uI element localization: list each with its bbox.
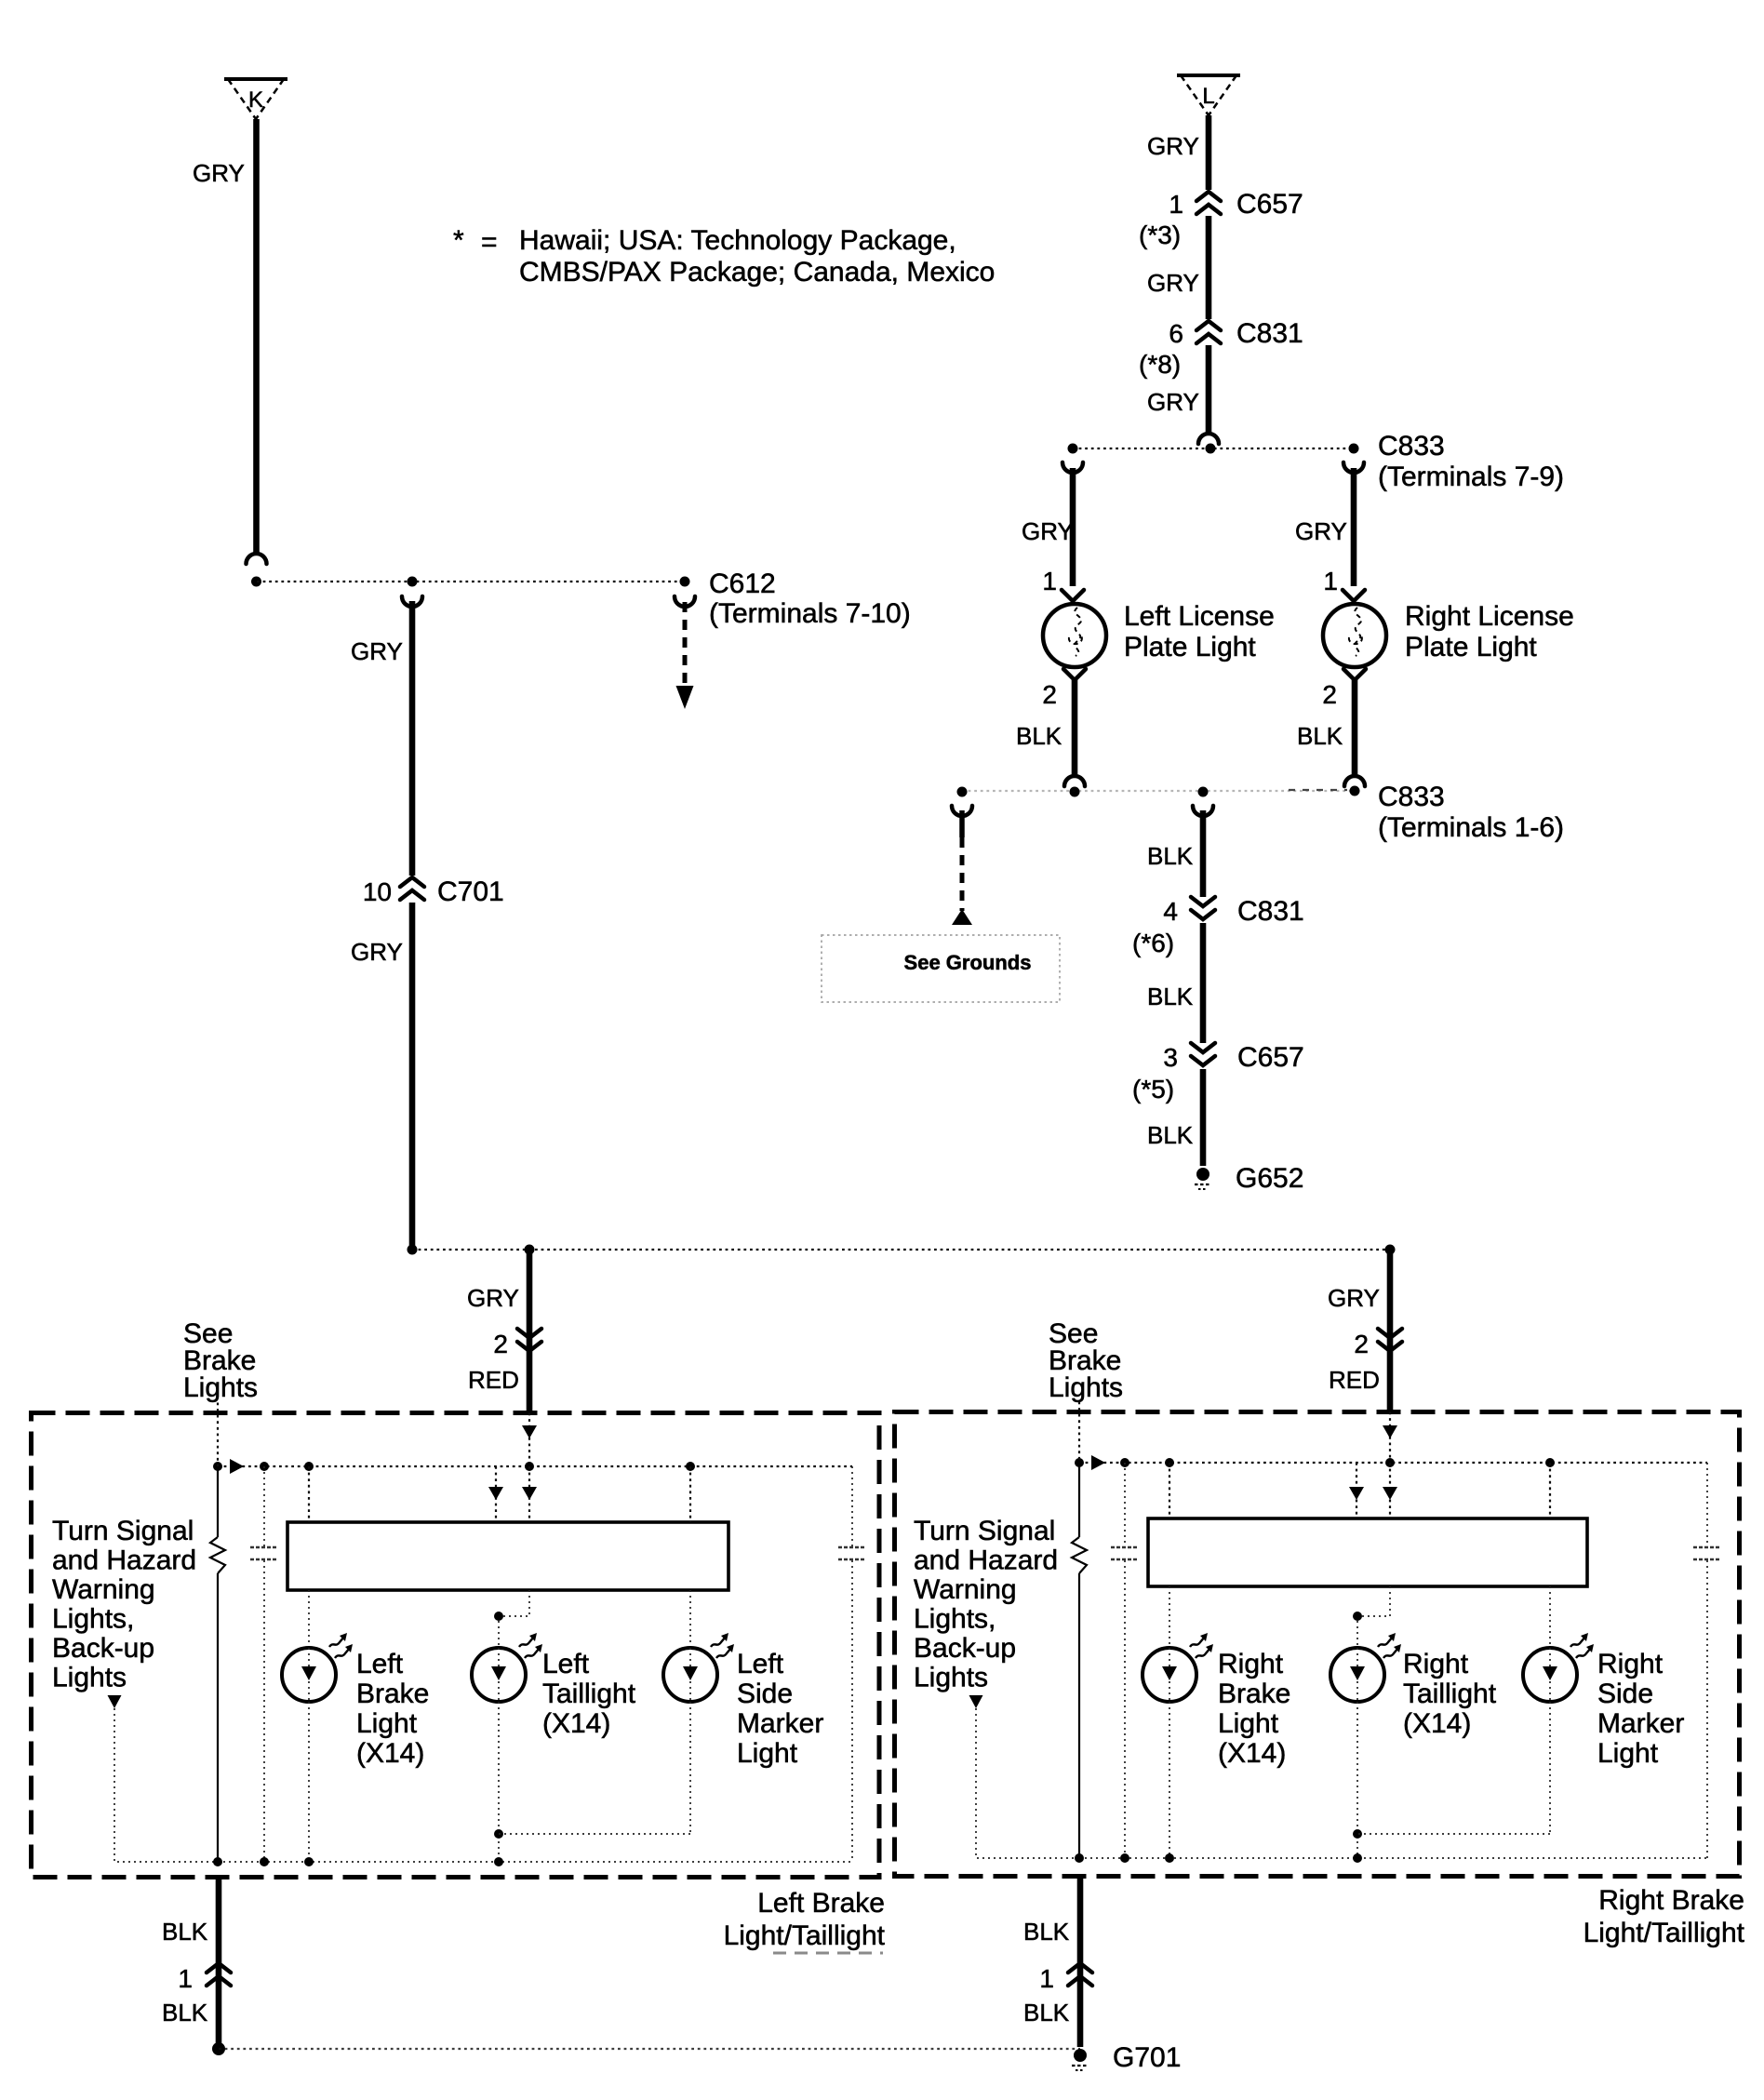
wire GRY to left license plate light pin 1 xyxy=(1062,462,1083,473)
lamp left brake light (X14) xyxy=(282,1648,336,1702)
svg-text:BLK: BLK xyxy=(1147,1121,1194,1149)
svg-text:1: 1 xyxy=(1039,1964,1054,1993)
wire brake lamp branch xyxy=(308,1466,310,1522)
svg-text:Marker: Marker xyxy=(737,1708,823,1739)
svg-text:Warning: Warning xyxy=(914,1574,1017,1605)
connector C831 pin 4 (*6) xyxy=(1191,897,1215,906)
svg-text:GRY: GRY xyxy=(351,938,403,966)
svg-text:BLK: BLK xyxy=(162,1999,208,2026)
wire side marker branch xyxy=(689,1466,691,1522)
node junction under K xyxy=(251,577,261,587)
connector K (page link triangle) xyxy=(224,77,287,81)
wire inner top bus xyxy=(1079,1462,1707,1464)
wire GRY below C701 xyxy=(409,903,416,1250)
svg-text:BLK: BLK xyxy=(162,1918,208,1946)
svg-text:C831: C831 xyxy=(1236,318,1303,349)
svg-text:C833: C833 xyxy=(1378,782,1445,812)
svg-text:GRY: GRY xyxy=(467,1284,519,1312)
svg-text:GRY: GRY xyxy=(1295,517,1347,545)
wire GRY down to C701 xyxy=(402,596,422,607)
wire feed into assembly xyxy=(528,1413,530,1467)
ground G701 xyxy=(1074,2049,1087,2062)
svg-text:Left: Left xyxy=(737,1649,784,1679)
svg-text:Light: Light xyxy=(1218,1708,1279,1739)
node junction C701 branch xyxy=(408,577,418,587)
svg-text:Side: Side xyxy=(737,1679,793,1709)
svg-text:(X14): (X14) xyxy=(542,1708,610,1739)
svg-text:(*3): (*3) xyxy=(1139,221,1181,249)
svg-text:GRY: GRY xyxy=(1022,517,1074,545)
svg-text:(Terminals 1-6): (Terminals 1-6) xyxy=(1378,812,1564,843)
wire inner bottom bus xyxy=(1079,1857,1707,1859)
svg-text:RED: RED xyxy=(1329,1366,1380,1394)
svg-text:Brake: Brake xyxy=(356,1679,429,1709)
wire brake feed entry xyxy=(217,1403,219,1467)
box See Grounds xyxy=(822,935,1060,1002)
svg-text:=: = xyxy=(481,227,498,258)
svg-text:RED: RED xyxy=(468,1366,519,1394)
svg-text:GRY: GRY xyxy=(1147,269,1199,297)
svg-text:Right: Right xyxy=(1218,1649,1284,1679)
svg-text:Plate Light: Plate Light xyxy=(1405,632,1537,662)
svg-text:GRY: GRY xyxy=(351,637,403,665)
svg-text:(*5): (*5) xyxy=(1132,1075,1174,1104)
svg-text:6: 6 xyxy=(1169,319,1183,348)
svg-text:G652: G652 xyxy=(1236,1163,1303,1194)
svg-text:GRY: GRY xyxy=(1328,1284,1380,1312)
wire dotted bus to C612 xyxy=(257,581,685,582)
svg-text:BLK: BLK xyxy=(1147,983,1194,1010)
wire dashed to grounds xyxy=(957,787,968,797)
wire feed into assembly xyxy=(1389,1412,1391,1464)
node junction bottom left xyxy=(212,2042,225,2055)
lamp right brake light (X14) xyxy=(1143,1648,1196,1702)
svg-text:(*6): (*6) xyxy=(1132,929,1174,957)
resistor xyxy=(217,1466,219,1537)
wire BLK to ground xyxy=(216,1878,222,2044)
svg-text:C657: C657 xyxy=(1236,189,1303,220)
svg-text:(*8): (*8) xyxy=(1139,350,1181,379)
wire GRY to right license plate light pin 1 xyxy=(1343,462,1364,473)
svg-text:2: 2 xyxy=(493,1330,508,1358)
wire into bulb unit with arrows xyxy=(1356,1463,1357,1518)
wire taillight branch with jog xyxy=(499,1590,529,1648)
svg-text:2: 2 xyxy=(1042,680,1057,709)
resistor xyxy=(1078,1463,1080,1537)
svg-text:GRY: GRY xyxy=(193,159,245,187)
svg-text:(X14): (X14) xyxy=(1218,1738,1286,1769)
component bulb unit rectangle xyxy=(287,1522,728,1590)
wire side marker branch xyxy=(1549,1463,1551,1518)
lamp right side marker light xyxy=(1523,1648,1577,1702)
svg-text:10: 10 xyxy=(363,877,392,906)
svg-text:CMBS/PAX Package; Canada, Mexi: CMBS/PAX Package; Canada, Mexico xyxy=(519,257,995,288)
svg-text:C701: C701 xyxy=(437,876,504,907)
svg-text:Right: Right xyxy=(1403,1649,1469,1679)
svg-text:(X14): (X14) xyxy=(1403,1708,1471,1739)
connector pin 2 inline xyxy=(1378,1329,1402,1338)
svg-text:Left License: Left License xyxy=(1124,601,1275,632)
wire BLK xyxy=(1200,923,1207,1043)
box brake light/taillight assembly xyxy=(32,1413,880,1878)
svg-text:Right: Right xyxy=(1597,1649,1664,1679)
wire taillight branch with jog xyxy=(1357,1586,1390,1648)
wire GRY from L xyxy=(1206,115,1212,190)
capacitor right xyxy=(1706,1463,1708,1546)
svg-text:(Terminals 7-9): (Terminals 7-9) xyxy=(1378,461,1564,492)
svg-text:Lights: Lights xyxy=(914,1663,988,1693)
svg-text:Plate Light: Plate Light xyxy=(1124,632,1256,662)
svg-text:Left Brake: Left Brake xyxy=(757,1888,885,1919)
box brake light/taillight assembly xyxy=(895,1412,1740,1877)
svg-text:BLK: BLK xyxy=(1023,1999,1070,2026)
node C833 terminals 1-6 bus xyxy=(962,790,1355,792)
svg-text:Back-up: Back-up xyxy=(914,1633,1016,1664)
wire GRY xyxy=(1206,216,1212,319)
svg-text:and Hazard: and Hazard xyxy=(914,1545,1058,1576)
svg-text:3: 3 xyxy=(1163,1043,1178,1072)
wire inner top bus xyxy=(218,1465,852,1467)
capacitor xyxy=(263,1466,265,1546)
connector C701 pin 10 xyxy=(400,877,424,887)
wire GRY/RED feed xyxy=(1387,1250,1394,1412)
svg-text:C612: C612 xyxy=(709,568,776,599)
svg-text:C831: C831 xyxy=(1237,896,1304,927)
svg-text:BLK: BLK xyxy=(1297,722,1343,750)
wire BLK to ground xyxy=(1077,1877,1084,2048)
svg-text:Warning: Warning xyxy=(52,1574,155,1605)
svg-text:See Grounds: See Grounds xyxy=(904,951,1032,974)
connector L (page link triangle) xyxy=(1177,74,1240,77)
connector pin 1 inline xyxy=(1068,1963,1092,1973)
svg-text:L: L xyxy=(1202,84,1214,109)
lamp left side marker light xyxy=(663,1648,717,1702)
lamp left taillight (X14) xyxy=(472,1648,526,1702)
svg-text:BLK: BLK xyxy=(1023,1918,1070,1946)
svg-text:1: 1 xyxy=(178,1964,193,1993)
wire inner bottom bus xyxy=(218,1861,852,1863)
svg-text:C657: C657 xyxy=(1237,1042,1304,1073)
svg-text:Turn Signal: Turn Signal xyxy=(914,1516,1055,1546)
lamp Left License Plate Light xyxy=(1043,604,1106,667)
svg-text:Lights: Lights xyxy=(52,1663,127,1693)
svg-text:Taillight: Taillight xyxy=(542,1679,636,1709)
svg-text:GRY: GRY xyxy=(1147,132,1199,160)
svg-text:2: 2 xyxy=(1322,680,1337,709)
svg-text:Marker: Marker xyxy=(1597,1708,1684,1739)
svg-text:Brake: Brake xyxy=(1218,1679,1290,1709)
svg-text:Taillight: Taillight xyxy=(1403,1679,1497,1709)
component bulb unit rectangle xyxy=(1148,1518,1587,1586)
capacitor right xyxy=(851,1466,853,1546)
wire into bulb unit with arrows xyxy=(495,1466,497,1522)
svg-text:BLK: BLK xyxy=(1016,722,1062,750)
svg-text:(X14): (X14) xyxy=(356,1738,424,1769)
svg-text:Lights: Lights xyxy=(1049,1372,1123,1403)
svg-text:Back-up: Back-up xyxy=(52,1633,154,1664)
svg-text:and Hazard: and Hazard xyxy=(52,1545,196,1576)
svg-text:Light: Light xyxy=(737,1738,798,1769)
ground G652 xyxy=(1196,1168,1209,1181)
svg-text:Left: Left xyxy=(356,1649,404,1679)
wire turn signal branch xyxy=(976,1708,1079,1858)
connector C831 pin 6 (*8) xyxy=(1196,321,1221,330)
wire bottom dotted bus to G701 xyxy=(219,2048,1080,2050)
capacitor xyxy=(1124,1463,1126,1546)
svg-text:1: 1 xyxy=(1042,567,1057,595)
wire brake lamp branch xyxy=(1169,1463,1170,1518)
svg-text:BLK: BLK xyxy=(1147,842,1194,870)
svg-text:Hawaii; USA: Technology Packag: Hawaii; USA: Technology Package, xyxy=(519,225,956,256)
svg-text:K: K xyxy=(248,87,263,113)
svg-text:1: 1 xyxy=(1169,190,1183,219)
wire GRY/RED feed xyxy=(527,1250,533,1413)
lamp Right License Plate Light xyxy=(1323,604,1386,667)
connector pin 2 inline xyxy=(517,1329,541,1338)
svg-text:C833: C833 xyxy=(1378,431,1445,461)
node C833 terminals 7-9 bus xyxy=(1073,448,1354,449)
svg-text:Lights,: Lights, xyxy=(52,1604,134,1635)
svg-text:Right Brake: Right Brake xyxy=(1598,1885,1744,1916)
wire brake feed entry xyxy=(1078,1402,1080,1464)
svg-text:Lights,: Lights, xyxy=(914,1604,996,1635)
lamp right taillight (X14) xyxy=(1330,1648,1384,1702)
svg-text:Light/Taillight: Light/Taillight xyxy=(1584,1918,1745,1948)
svg-text:Light: Light xyxy=(1597,1738,1659,1769)
wire GRY from K xyxy=(253,119,260,554)
svg-text:Lights: Lights xyxy=(183,1372,258,1403)
svg-text:2: 2 xyxy=(1354,1330,1369,1358)
svg-text:GRY: GRY xyxy=(1147,388,1199,416)
svg-text:Light: Light xyxy=(356,1708,418,1739)
connector C657 pin 3 (*5) xyxy=(1191,1043,1215,1052)
connector pin 1 inline xyxy=(207,1963,231,1973)
svg-text:Left: Left xyxy=(542,1649,590,1679)
svg-text:1: 1 xyxy=(1323,567,1338,595)
svg-text:Light/Taillight: Light/Taillight xyxy=(724,1920,886,1951)
svg-text:G701: G701 xyxy=(1113,2042,1181,2073)
svg-text:4: 4 xyxy=(1163,897,1178,926)
svg-text:Right License: Right License xyxy=(1405,601,1574,632)
svg-text:Side: Side xyxy=(1597,1679,1653,1709)
wire turn signal branch xyxy=(114,1708,218,1862)
wire BLK xyxy=(1200,1069,1207,1166)
svg-text:Turn Signal: Turn Signal xyxy=(52,1516,194,1546)
wire BLK chain xyxy=(1198,787,1209,797)
wire GRY xyxy=(1206,345,1212,434)
connector C612 (Terminals 7-10) dashed drop xyxy=(680,577,690,587)
connector C657 pin 1 (*3) xyxy=(1196,192,1221,201)
svg-text:(Terminals 7-10): (Terminals 7-10) xyxy=(709,598,911,629)
svg-text:*: * xyxy=(453,225,464,256)
wire main dotted bus xyxy=(412,1249,1390,1251)
